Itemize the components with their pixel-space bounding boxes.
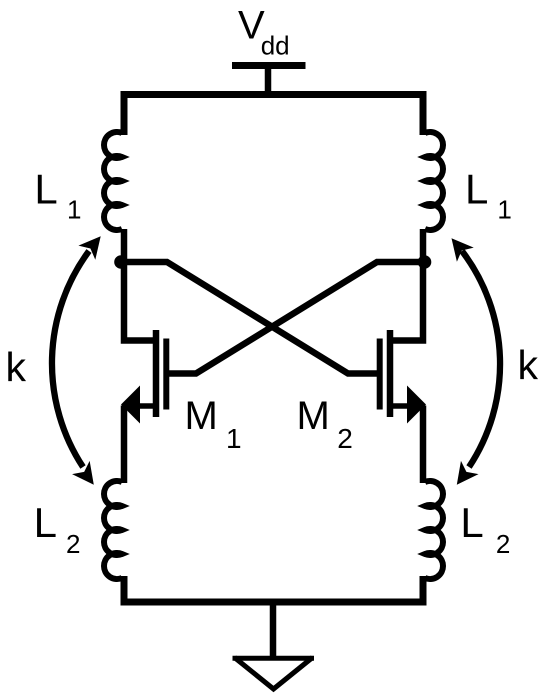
svg-text:L: L: [465, 166, 488, 213]
svg-text:k: k: [6, 344, 27, 390]
svg-text:M: M: [185, 394, 218, 438]
svg-text:dd: dd: [261, 30, 290, 60]
svg-text:k: k: [518, 342, 539, 388]
svg-text:L: L: [34, 166, 57, 213]
svg-text:2: 2: [337, 423, 353, 454]
svg-text:L: L: [34, 499, 57, 546]
svg-text:L: L: [460, 499, 483, 546]
svg-text:1: 1: [226, 423, 242, 454]
svg-text:2: 2: [66, 529, 80, 559]
svg-text:M: M: [297, 394, 330, 438]
svg-text:2: 2: [496, 529, 510, 559]
svg-text:1: 1: [67, 195, 81, 225]
svg-text:1: 1: [497, 195, 511, 225]
